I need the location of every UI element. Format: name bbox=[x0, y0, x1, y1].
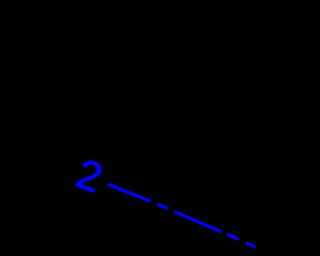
wire: long dash 1 bbox=[108, 184, 151, 201]
contour line level-2 (dash-dot), drawn as measured segments bbox=[108, 184, 256, 247]
wire: dot 2 bbox=[227, 234, 239, 239]
wire: long dash 3 bbox=[246, 243, 256, 247]
wire: dot 1 bbox=[157, 204, 168, 208]
wire: long dash 2 bbox=[174, 211, 221, 231]
